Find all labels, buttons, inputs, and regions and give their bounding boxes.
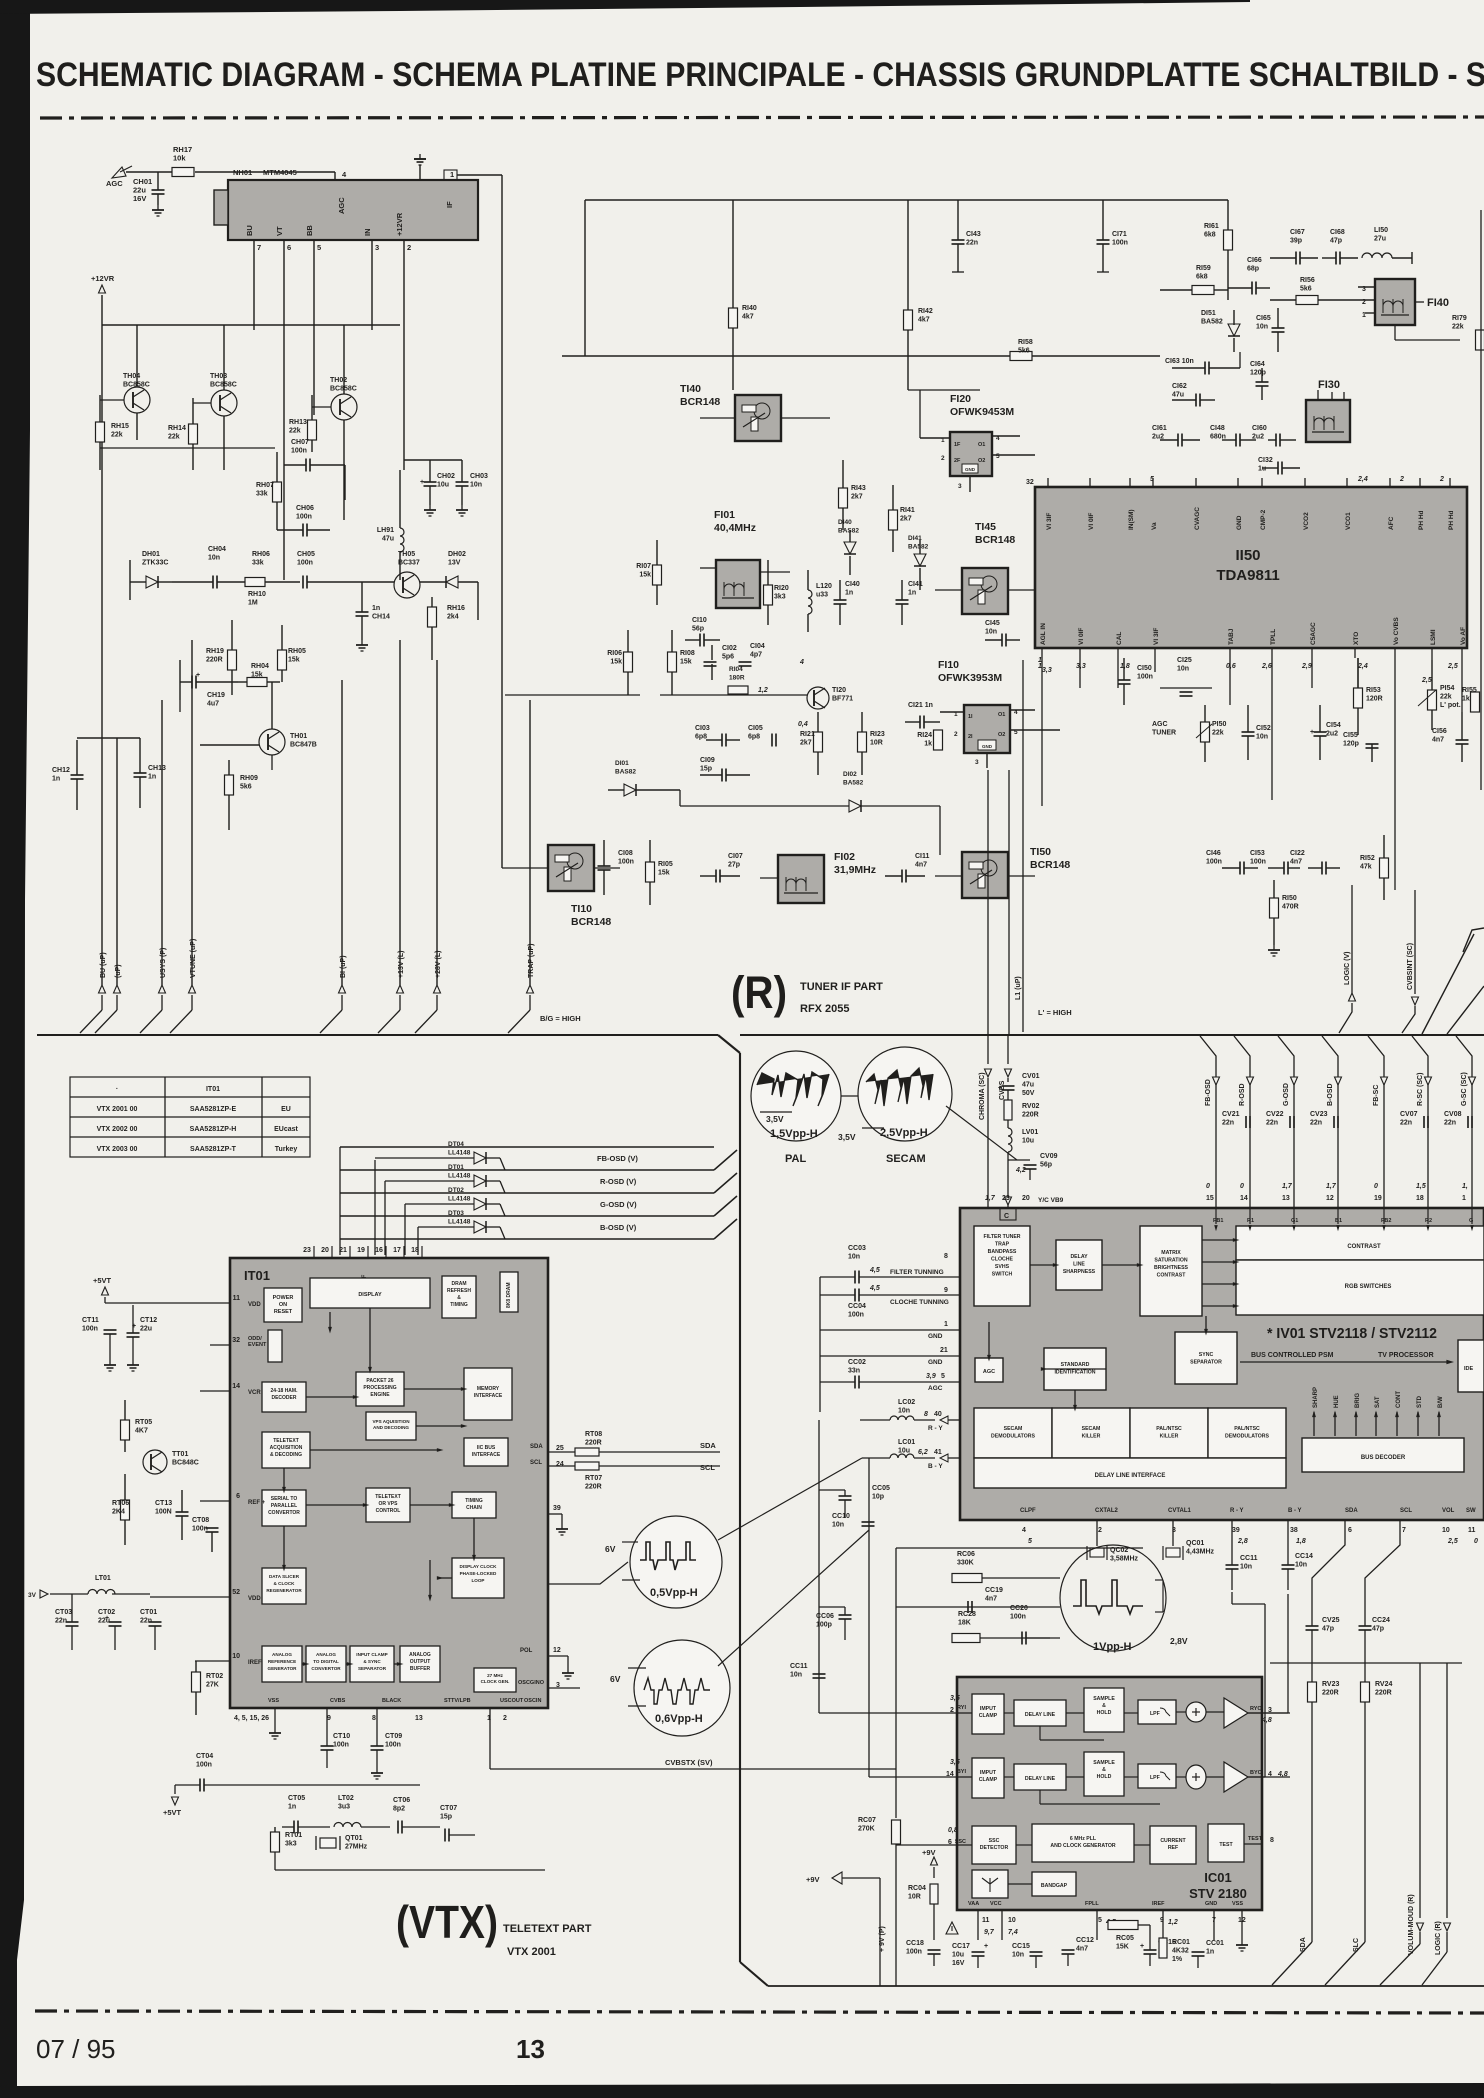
svg-text:18: 18: [1416, 1195, 1424, 1202]
svg-text:220R: 220R: [585, 1484, 602, 1491]
svg-text:120p: 120p: [1250, 370, 1266, 377]
svg-text:DISPLAY: DISPLAY: [358, 1292, 382, 1298]
connector arrow Y/C: [1005, 1197, 1012, 1205]
svg-text:SEPARATOR: SEPARATOR: [358, 1666, 387, 1671]
wire and label FB-SC: [1368, 1036, 1384, 1208]
svg-text:CV08: CV08: [1444, 1111, 1462, 1118]
svg-text:10n: 10n: [832, 1522, 844, 1529]
bus diagonal bottom right of tuner section: [1422, 934, 1474, 1034]
left wires vertical bus: [819, 1277, 821, 1412]
svg-text:CT08: CT08: [192, 1517, 209, 1524]
resistor RH04 15k: [247, 678, 267, 687]
svg-text:10n: 10n: [985, 629, 997, 636]
svg-text:+: +: [105, 1615, 109, 1622]
svg-text:CT10: CT10: [333, 1733, 350, 1740]
wire BYO up to B-Y pin: [1248, 1776, 1265, 1778]
svg-text:16: 16: [375, 1247, 383, 1254]
svg-text:2,5: 2,5: [1447, 1538, 1458, 1545]
wire network left of IC01: vertical to RYI: [818, 1420, 820, 1713]
IV01 internal arrows: [1030, 1264, 1056, 1266]
svg-text:ANALOG: ANALOG: [409, 1652, 431, 1658]
svg-text:270K: 270K: [858, 1826, 875, 1833]
svg-text:INTERFACE: INTERFACE: [474, 1393, 503, 1399]
svg-text:DH02: DH02: [448, 551, 466, 558]
svg-text:4: 4: [1022, 1527, 1026, 1534]
svg-text:TELETEXT PART: TELETEXT PART: [503, 1923, 592, 1935]
svg-text:LL4148: LL4148: [448, 1196, 471, 1203]
svg-text:GND: GND: [928, 1359, 943, 1366]
transistor amplifier TI10 BCR148: [548, 845, 594, 891]
svg-text:VPS AQUISITION: VPS AQUISITION: [372, 1419, 410, 1424]
svg-text:22n: 22n: [1310, 1120, 1322, 1127]
svg-text:2F: 2F: [954, 458, 961, 464]
svg-text:+9V: +9V: [922, 1848, 936, 1857]
connector BI: [339, 985, 346, 993]
svg-text:VCO2: VCO2: [1303, 512, 1310, 530]
svg-text:22n: 22n: [1400, 1120, 1412, 1127]
svg-text:CLAMP: CLAMP: [979, 1777, 998, 1783]
wire left bus verticals: [116, 738, 118, 985]
IT01 sub-block ODD EVENT: [268, 1330, 282, 1362]
svg-text:TI20: TI20: [832, 687, 846, 694]
svg-text:CC14: CC14: [1295, 1553, 1313, 1560]
svg-text:2: 2: [950, 1707, 954, 1714]
svg-text:3,5V: 3,5V: [838, 1132, 856, 1142]
svg-text:CI04: CI04: [750, 643, 765, 650]
SLC diagonal to bottom bus: [1325, 1942, 1365, 1985]
wire PAL to SECAM circles: [841, 1095, 858, 1097]
svg-text:RI59: RI59: [1196, 265, 1211, 272]
svg-text:10u: 10u: [437, 482, 449, 489]
svg-text:DH01: DH01: [142, 551, 160, 558]
svg-text:22n: 22n: [1444, 1120, 1456, 1127]
svg-text:22k: 22k: [1452, 324, 1464, 331]
svg-text:RI21: RI21: [800, 731, 815, 738]
IV01 sub-block PAL/NTSC KILLER: [1130, 1408, 1208, 1458]
svg-text:10n: 10n: [898, 1408, 910, 1415]
resistor RI58 5k6: [1010, 352, 1032, 361]
resistor RT01 3k3: [271, 1832, 280, 1852]
IC01 sub-block IMPUT CLAMP 2: [972, 1758, 1004, 1798]
svg-text:LL4148: LL4148: [448, 1150, 471, 1157]
svg-text:BC847B: BC847B: [290, 742, 317, 749]
svg-text:3k3: 3k3: [774, 594, 786, 601]
svg-text:IIC BUS: IIC BUS: [477, 1445, 496, 1451]
svg-text:LOOP: LOOP: [471, 1578, 484, 1583]
svg-text:3k3: 3k3: [285, 1841, 297, 1848]
svg-text:ANALOG: ANALOG: [316, 1652, 336, 1657]
connector (uP): [114, 985, 121, 993]
svg-text:CLOCK GEN.: CLOCK GEN.: [481, 1679, 510, 1684]
svg-text:Vo CVBS: Vo CVBS: [1393, 617, 1400, 645]
svg-text:22n: 22n: [140, 1618, 152, 1625]
svg-text:STV 2180: STV 2180: [1189, 1886, 1247, 1901]
resistor RI21 2k7: [814, 732, 823, 752]
svg-text:Va: Va: [1151, 522, 1158, 530]
svg-text:LC02: LC02: [898, 1399, 915, 1406]
svg-text:CT05: CT05: [288, 1795, 305, 1802]
wire IF output right: [457, 174, 502, 176]
IV01 sub-block DELAY LINE SHARPNESS: [1056, 1240, 1102, 1290]
svg-text:2,4: 2,4: [1357, 476, 1368, 483]
svg-text:BCR148: BCR148: [571, 916, 611, 928]
resistor RI23 10R: [858, 732, 867, 752]
svg-text:22k: 22k: [1440, 694, 1452, 701]
svg-text:VDD: VDD: [248, 1302, 261, 1308]
svg-text:CVAGC: CVAGC: [1194, 507, 1201, 530]
svg-text:BA582: BA582: [1201, 319, 1223, 326]
capacitor CH12 1n: [71, 774, 84, 776]
svg-text:1n: 1n: [52, 776, 60, 783]
resistor RH15 22k: [96, 422, 105, 442]
svg-text:ON: ON: [279, 1302, 287, 1308]
svg-text:39p: 39p: [1290, 238, 1302, 245]
svg-text:BRIGHTNESS: BRIGHTNESS: [1154, 1265, 1189, 1271]
svg-text:CLAMP: CLAMP: [979, 1713, 998, 1719]
svg-text:DELAY LINE INTERFACE: DELAY LINE INTERFACE: [1095, 1473, 1166, 1479]
svg-text:8: 8: [944, 1253, 948, 1260]
svg-text:CVBSINT (SC): CVBSINT (SC): [1407, 943, 1414, 990]
IC01 row2 wires: [1004, 1776, 1014, 1778]
svg-text:10n: 10n: [1240, 1564, 1252, 1571]
transistor TI20 BF771: [807, 687, 829, 709]
svg-text:DI51: DI51: [1201, 310, 1216, 317]
IC01 row1 wires: [1004, 1712, 1014, 1714]
svg-text:LPF: LPF: [1150, 1711, 1160, 1717]
svg-text:BB: BB: [305, 225, 314, 236]
svg-text:FI20: FI20: [950, 393, 971, 405]
svg-text:6k8: 6k8: [1196, 274, 1208, 281]
svg-text:OUTPUT: OUTPUT: [410, 1659, 431, 1665]
svg-text:2,8V: 2,8V: [1170, 1636, 1188, 1646]
svg-text:DEMODULATORS: DEMODULATORS: [991, 1434, 1035, 1440]
svg-text:USCOUT: USCOUT: [500, 1698, 524, 1704]
SDA diagonal to bottom bus: [1272, 1942, 1312, 1985]
svg-text:10: 10: [1008, 1917, 1016, 1924]
svg-text:CXTAL2: CXTAL2: [1095, 1508, 1119, 1514]
svg-text:SAA5281ZP-T: SAA5281ZP-T: [190, 1146, 237, 1153]
svg-text:RI24: RI24: [917, 732, 932, 739]
svg-text:RI04: RI04: [729, 666, 743, 673]
svg-text:CC12: CC12: [1076, 1937, 1094, 1944]
svg-text:SECAM: SECAM: [1082, 1426, 1101, 1432]
svg-text:0: 0: [1206, 1183, 1210, 1190]
IV01 sub-block CONTRAST: [1236, 1226, 1484, 1260]
IV01 pin label C: [1000, 1208, 1016, 1220]
svg-text:19: 19: [357, 1247, 365, 1254]
svg-text:PAL: PAL: [785, 1153, 806, 1165]
svg-text:220R: 220R: [206, 657, 223, 664]
svg-text:(uP): (uP): [115, 964, 122, 978]
ground RI50: [1273, 945, 1275, 950]
svg-text:DI40: DI40: [838, 519, 852, 526]
svg-text:VTX 2003 00: VTX 2003 00: [97, 1146, 138, 1153]
svg-text:4n7: 4n7: [915, 862, 927, 869]
svg-text:4,5: 4,5: [869, 1267, 880, 1274]
resistor RI52 47k: [1380, 858, 1389, 878]
svg-text:4: 4: [342, 170, 347, 179]
wire CVBSTX: [326, 1734, 328, 1736]
resistor RH17 10k: [172, 168, 194, 177]
svg-text:11: 11: [1468, 1527, 1476, 1534]
svg-text:17: 17: [393, 1247, 401, 1254]
svg-text:+: +: [984, 1943, 988, 1950]
svg-text:4p7: 4p7: [750, 652, 762, 659]
svg-text:CI52: CI52: [1256, 725, 1271, 732]
svg-text:2k7: 2k7: [851, 494, 863, 501]
svg-text:CI48: CI48: [1210, 425, 1225, 432]
resistor RI59 6k8: [1192, 286, 1214, 295]
svg-text:R - Y: R - Y: [928, 1425, 943, 1432]
svg-text:2: 2: [1439, 476, 1444, 483]
svg-text:II50: II50: [1235, 547, 1260, 564]
svg-text:&: &: [457, 1295, 461, 1301]
svg-text:SAA5281ZP-E: SAA5281ZP-E: [190, 1106, 237, 1113]
svg-text:21: 21: [339, 1247, 347, 1254]
IT01 sub-block TELETEXT OR VPS CONTROL: [366, 1488, 410, 1522]
svg-text:56p: 56p: [1040, 1162, 1052, 1169]
svg-text:CI08: CI08: [618, 850, 633, 857]
svg-text:3,9: 3,9: [926, 1373, 936, 1380]
svg-text:RT08: RT08: [585, 1431, 602, 1438]
svg-text:14: 14: [1240, 1195, 1248, 1202]
svg-text:ACQUISITION: ACQUISITION: [270, 1445, 303, 1451]
svg-text:CI02: CI02: [722, 645, 737, 652]
svg-text:INTERFACE: INTERFACE: [472, 1452, 501, 1458]
svg-text:CI54: CI54: [1326, 722, 1341, 729]
svg-text:+12VR: +12VR: [395, 212, 404, 236]
IC01 sub-block BANDGAP: [1032, 1872, 1076, 1896]
wire TI40 connections: [700, 417, 735, 419]
svg-text:6: 6: [287, 243, 291, 252]
svg-text:LC01: LC01: [898, 1439, 915, 1446]
svg-text:47u: 47u: [1022, 1082, 1034, 1089]
svg-text:RV02: RV02: [1022, 1103, 1039, 1110]
svg-text:REFRESH: REFRESH: [447, 1288, 471, 1294]
svg-text:RH05: RH05: [288, 648, 306, 655]
svg-text:6 MHz PLL: 6 MHz PLL: [1070, 1836, 1097, 1842]
IV01 sub-block IDENT right edge: [1458, 1340, 1484, 1392]
svg-text:BRIG: BRIG: [1355, 1393, 1361, 1408]
svg-text:6p8: 6p8: [748, 734, 760, 741]
svg-text:ANALOG: ANALOG: [272, 1652, 292, 1657]
IT01 sub-block DISPLAY: [310, 1278, 430, 1308]
svg-text:EU: EU: [281, 1106, 291, 1113]
svg-text:HUE: HUE: [1334, 1395, 1340, 1408]
version table IT01 variants: [70, 1077, 310, 1157]
warning triangle symbol: [946, 1922, 958, 1934]
svg-text:CH04: CH04: [208, 546, 226, 553]
resistor RI53 120R: [1354, 688, 1363, 708]
svg-text:R-OSD: R-OSD: [1239, 1083, 1246, 1106]
svg-text:6: 6: [1348, 1527, 1352, 1534]
svg-text:0: 0: [1240, 1183, 1244, 1190]
svg-text:DRAM: DRAM: [452, 1281, 467, 1287]
svg-text:SLC: SLC: [1353, 1938, 1360, 1952]
svg-text:9,7: 9,7: [984, 1929, 995, 1936]
svg-text:CC18: CC18: [906, 1940, 924, 1947]
svg-text:2: 2: [407, 243, 411, 252]
svg-text:1,7: 1,7: [985, 1195, 996, 1202]
svg-text:2u2: 2u2: [1252, 434, 1264, 441]
svg-text:TO DIGITAL: TO DIGITAL: [313, 1659, 339, 1664]
svg-text:INPUT CLAMP: INPUT CLAMP: [356, 1652, 387, 1657]
svg-text:1%: 1%: [1172, 1956, 1183, 1963]
svg-text:O1: O1: [998, 712, 1005, 718]
svg-text:15k: 15k: [658, 870, 670, 877]
svg-text:CI50: CI50: [1137, 665, 1152, 672]
resistor RH19 220R: [228, 650, 237, 670]
IV01 sub-block SECAM DEMODULATORS: [974, 1408, 1052, 1458]
svg-text:RI43: RI43: [851, 485, 866, 492]
svg-text:CI21 1n: CI21 1n: [908, 702, 933, 709]
svg-text:CI55: CI55: [1343, 732, 1358, 739]
svg-text:100n: 100n: [296, 514, 312, 521]
svg-text:9: 9: [944, 1287, 948, 1294]
svg-text:DT01: DT01: [448, 1164, 464, 1171]
svg-text:TUNER IF PART: TUNER IF PART: [800, 981, 883, 993]
svg-text:VTX 2001: VTX 2001: [507, 1946, 556, 1958]
svg-text:FILTER TUNER: FILTER TUNER: [983, 1234, 1020, 1240]
svg-text:CI41: CI41: [908, 581, 923, 588]
svg-text:POL: POL: [520, 1648, 533, 1654]
svg-text:CI71: CI71: [1112, 231, 1127, 238]
svg-text:SECAM: SECAM: [1004, 1426, 1023, 1432]
svg-text:47p: 47p: [1322, 1626, 1334, 1633]
svg-text:u33: u33: [816, 592, 828, 599]
svg-text:TI40: TI40: [680, 383, 701, 395]
resistor RI40 4k7: [729, 308, 738, 328]
svg-text:52: 52: [232, 1589, 240, 1596]
svg-text:3V: 3V: [28, 1592, 37, 1599]
svg-text:8K8 DRAM: 8K8 DRAM: [506, 1282, 512, 1308]
svg-text:7: 7: [1402, 1527, 1406, 1534]
connector arrow LOGIC bottom: [1444, 1923, 1451, 1931]
svg-text:CI32: CI32: [1258, 457, 1273, 464]
section border diagonal corner bottom-left of right section: [740, 1962, 768, 1986]
top rail wires: [585, 199, 1228, 201]
svg-text:4K7: 4K7: [135, 1428, 148, 1435]
svg-text:BC848C: BC848C: [172, 1460, 199, 1467]
svg-text:1F: 1F: [954, 442, 961, 448]
svg-text:PHASE-LOCKED: PHASE-LOCKED: [460, 1571, 497, 1576]
svg-text:&: &: [1102, 1703, 1106, 1709]
resistor RI20 3k3: [764, 585, 773, 605]
svg-text:47u: 47u: [382, 536, 394, 543]
svg-text:BAS82: BAS82: [838, 528, 859, 535]
svg-text:40: 40: [934, 1411, 942, 1418]
bottom dash-dot border line: [35, 2011, 1484, 2013]
svg-text:31,9MHz: 31,9MHz: [834, 864, 876, 876]
svg-text:47p: 47p: [1372, 1626, 1384, 1633]
svg-text:33k: 33k: [252, 560, 264, 567]
svg-text:RI41: RI41: [900, 507, 915, 514]
transistor amplifier TI50 BCR148: [962, 852, 1008, 898]
svg-text:KILLER: KILLER: [1082, 1434, 1101, 1440]
capacitor CI52 10n: [1242, 731, 1255, 733]
IC01 internal wires: [1016, 1844, 1032, 1846]
svg-text:FB-OSD (V): FB-OSD (V): [597, 1154, 638, 1163]
svg-text:6k8: 6k8: [1204, 232, 1216, 239]
svg-text:QC01: QC01: [1186, 1540, 1204, 1547]
IV01 sub-block SECAM KILLER: [1052, 1408, 1130, 1458]
svg-text:CI46: CI46: [1206, 850, 1221, 857]
svg-text:C5AGC: C5AGC: [1310, 622, 1317, 645]
svg-text:100n: 100n: [82, 1326, 98, 1333]
svg-text:2: 2: [1098, 1527, 1102, 1534]
svg-text:2K4: 2K4: [112, 1509, 125, 1516]
svg-text:BCR148: BCR148: [1030, 859, 1070, 871]
svg-text:CI56: CI56: [1432, 728, 1447, 735]
svg-text:100n: 100n: [1137, 674, 1153, 681]
svg-text:USYS (P): USYS (P): [160, 948, 167, 978]
resistor RI42 4k7: [904, 310, 913, 330]
svg-text:1: 1: [1462, 1195, 1466, 1202]
svg-text:CI61: CI61: [1152, 425, 1167, 432]
svg-text:CVBSTX (SV): CVBSTX (SV): [665, 1758, 713, 1767]
svg-text:4,43MHz: 4,43MHz: [1186, 1549, 1215, 1556]
svg-text:27p: 27p: [728, 862, 740, 869]
svg-text:CV09: CV09: [1040, 1153, 1058, 1160]
IV01 sub-block DELAY LINE INTERFACE: [974, 1458, 1286, 1488]
svg-text:SSC: SSC: [989, 1838, 1000, 1844]
svg-text:6V: 6V: [605, 1544, 616, 1554]
svg-text:CURRENT: CURRENT: [1160, 1838, 1186, 1844]
svg-text:AGC: AGC: [337, 197, 346, 214]
svg-text:B/W: B/W: [1438, 1396, 1444, 1408]
svg-text:10n: 10n: [1012, 1952, 1024, 1959]
IV01 sub-block AGC: [975, 1358, 1003, 1382]
svg-text:REF +: REF +: [248, 1500, 266, 1506]
IC01 sub-block CURRENT REF: [1150, 1826, 1196, 1864]
IV01 arrow bus controlled: [1240, 1361, 1450, 1363]
svg-text:VT: VT: [275, 226, 284, 236]
svg-text:2I: 2I: [968, 734, 973, 740]
waveform circle 1Vpp-H: [1060, 1545, 1166, 1651]
svg-text:VI 3IF: VI 3IF: [1046, 513, 1053, 530]
svg-text:SEPARATOR: SEPARATOR: [1190, 1360, 1222, 1366]
svg-text:3: 3: [375, 243, 379, 252]
svg-text:07 / 95: 07 / 95: [36, 2034, 116, 2064]
svg-text:10n: 10n: [208, 555, 220, 562]
svg-text:RT05: RT05: [135, 1419, 152, 1426]
svg-text:VDD: VDD: [248, 1596, 261, 1602]
svg-text:3,58MHz: 3,58MHz: [1110, 1556, 1139, 1563]
svg-text:BI (uP): BI (uP): [340, 955, 347, 978]
svg-text:1,7: 1,7: [1326, 1183, 1337, 1190]
svg-text:0,5Vpp-H: 0,5Vpp-H: [650, 1587, 698, 1599]
II50 pin drop wires below block: [1041, 658, 1043, 806]
svg-text:10u: 10u: [898, 1448, 910, 1455]
IT01 sub-block VPS ACQUISITION: [366, 1412, 416, 1440]
svg-text:CV25: CV25: [1322, 1617, 1340, 1624]
svg-text:10n: 10n: [790, 1672, 802, 1679]
svg-text:8: 8: [372, 1715, 376, 1722]
svg-text:VCO1: VCO1: [1345, 512, 1352, 530]
svg-text:PACKET 26: PACKET 26: [366, 1378, 393, 1384]
IC IT01 SAA5281 teletext block: [230, 1258, 548, 1708]
svg-text:G: G: [1469, 1218, 1473, 1224]
svg-text:27MHz: 27MHz: [345, 1844, 368, 1851]
svg-text:CC02: CC02: [848, 1359, 866, 1366]
svg-text:6,2: 6,2: [918, 1449, 928, 1456]
svg-text:POWER: POWER: [273, 1295, 294, 1301]
svg-text:LINE: LINE: [1073, 1262, 1085, 1268]
connector +13V: [397, 985, 404, 993]
svg-text:DETECTOR: DETECTOR: [980, 1845, 1009, 1851]
svg-text:CI05: CI05: [748, 725, 763, 732]
svg-text:PH Hd: PH Hd: [1448, 510, 1455, 530]
